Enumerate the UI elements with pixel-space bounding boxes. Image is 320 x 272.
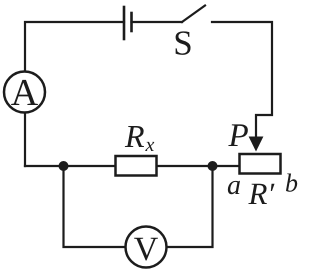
svg-text:P: P [228, 118, 249, 154]
svg-text:V: V [134, 231, 159, 268]
svg-text:A: A [11, 72, 39, 114]
svg-text:b: b [285, 169, 298, 198]
svg-text:S: S [173, 24, 192, 63]
svg-text:a: a [227, 170, 241, 201]
svg-text:R: R [124, 118, 145, 154]
svg-text:R′: R′ [248, 176, 276, 211]
svg-text:x: x [145, 134, 155, 156]
